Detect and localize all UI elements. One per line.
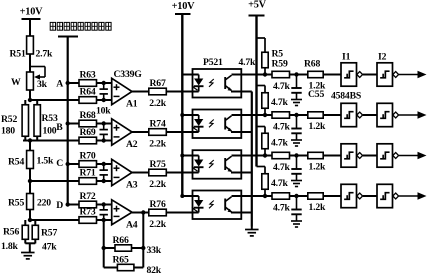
svg-text:1.2k: 1.2k <box>309 121 327 132</box>
svg-text:10k: 10k <box>96 106 111 117</box>
node: pot bottom / tap1 junction <box>28 98 32 102</box>
wire <box>323 195 341 197</box>
svg-text:R75: R75 <box>150 159 166 170</box>
ground (filter ch2) <box>291 140 302 146</box>
svg-text:A4: A4 <box>126 219 138 230</box>
svg-text:D: D <box>56 200 63 211</box>
schmitt inverter I2 ch4 <box>377 184 399 207</box>
light arrow ch2 <box>209 120 214 128</box>
node B <box>56 121 70 133</box>
svg-text:220: 220 <box>37 198 51 209</box>
node A <box>56 79 70 90</box>
LED ch1 <box>192 75 204 92</box>
pull-up resistor 4.7k ch1 <box>257 38 269 75</box>
series resistor 4.7k ch1 <box>265 71 291 92</box>
node <box>294 113 298 117</box>
wire op-amp output <box>132 131 149 133</box>
op-amp A2 <box>112 119 138 150</box>
wire to opto LED <box>166 91 198 93</box>
capacitor (input filter ch1) <box>100 81 108 102</box>
optocoupler P521 ch2 <box>193 110 242 139</box>
wire <box>251 227 253 230</box>
wire to opto LED <box>166 172 198 174</box>
wire +5V rail <box>255 16 257 167</box>
pull-up resistor 4.7k ch3 <box>257 127 269 156</box>
wire op-amp output <box>132 91 149 93</box>
op-amp A4 <box>112 200 138 230</box>
input vertical wire <box>67 37 69 205</box>
schmitt inverter I2 ch2 <box>377 103 399 126</box>
svg-text:33k: 33k <box>147 245 162 256</box>
svg-text:A2: A2 <box>126 139 138 150</box>
svg-text:R54: R54 <box>8 157 24 168</box>
schmitt inverter I1 ch4 <box>341 184 363 207</box>
wire <box>363 74 377 76</box>
resistor R72 (+ input) <box>68 191 97 208</box>
series resistor 1.2k ch2 <box>290 112 327 132</box>
wire <box>97 163 113 165</box>
optocoupler P521 ch1 <box>193 69 242 98</box>
capacitor (input filter ch3) <box>100 162 108 183</box>
node: tap3 junction <box>28 179 32 183</box>
svg-text:I2: I2 <box>378 52 387 63</box>
optocoupler P521 ch3 <box>193 150 242 179</box>
wire tap1 to R64 <box>30 99 79 101</box>
svg-text:R66: R66 <box>113 235 129 246</box>
svg-text:R73: R73 <box>79 207 95 218</box>
svg-text:+10V: +10V <box>20 7 44 18</box>
input terminal bar <box>58 36 78 38</box>
resistor R54 1.5k <box>8 151 54 169</box>
pull-up resistor 4.7k ch2 <box>257 86 269 116</box>
wire <box>29 19 31 37</box>
svg-text:47k: 47k <box>42 242 57 253</box>
filter capacitor ch2 <box>291 115 301 140</box>
phototransistor ch2 <box>225 115 265 132</box>
wire tap2 to R69 <box>23 140 79 142</box>
light arrow ch1 <box>209 79 214 87</box>
node C <box>56 158 70 169</box>
resistor R68 (+ input) <box>68 110 97 127</box>
svg-text:R71: R71 <box>79 168 95 179</box>
+10V supply (left) <box>20 7 44 20</box>
resistor R63 (+ input) <box>68 70 97 87</box>
svg-text:R59: R59 <box>272 59 288 70</box>
optocoupler P521 ch4 <box>193 191 242 220</box>
wire op-amp output <box>132 212 149 214</box>
svg-text:4.7k: 4.7k <box>239 57 257 68</box>
svg-text:2.2k: 2.2k <box>149 219 167 230</box>
resistor R71 (- input) <box>79 168 97 185</box>
wire <box>29 90 31 100</box>
node <box>263 194 267 198</box>
svg-text:2.7k: 2.7k <box>36 49 54 60</box>
schmitt inverter I1 ch1 <box>341 63 363 86</box>
svg-text:2.2k: 2.2k <box>149 139 167 150</box>
schmitt inverter I1 ch2 <box>341 103 363 126</box>
svg-text:1.5k: 1.5k <box>37 156 55 167</box>
svg-text:R72: R72 <box>79 191 95 202</box>
svg-text:R65: R65 <box>113 255 129 266</box>
svg-text:2.2k: 2.2k <box>149 98 167 109</box>
pull-up resistor 4.7k ch4 <box>257 167 269 197</box>
resistor R70 (+ input) <box>68 151 97 168</box>
wire <box>29 54 31 72</box>
resistor R52 180 <box>1 100 29 141</box>
node on +10V rail <box>180 154 184 158</box>
svg-text:100: 100 <box>43 126 57 137</box>
phototransistor ch1 <box>225 75 265 92</box>
series resistor 4.7k ch2 <box>265 112 291 133</box>
svg-text:C339G: C339G <box>114 69 143 80</box>
resistor R51 2.7k <box>10 36 54 60</box>
resistor R75 2.2k <box>149 159 167 190</box>
wire <box>363 195 377 197</box>
wire LED anode <box>182 195 198 197</box>
wire +10V rail <box>181 14 183 196</box>
svg-text:R74: R74 <box>150 119 166 130</box>
resistor R69 (- input) <box>79 127 97 144</box>
svg-text:R52: R52 <box>1 114 17 125</box>
resistor R66 33k <box>104 235 162 256</box>
wire <box>29 169 31 194</box>
svg-text:+5V: +5V <box>248 0 267 11</box>
svg-text:1.2k: 1.2k <box>309 202 327 213</box>
svg-text:82k: 82k <box>147 265 162 276</box>
svg-text:P521: P521 <box>203 57 223 68</box>
node <box>294 72 298 76</box>
resistor R76 2.2k <box>149 199 167 230</box>
output arrow <box>399 71 427 78</box>
wire <box>25 242 35 244</box>
svg-text:1.8k: 1.8k <box>1 241 19 252</box>
svg-text:R57: R57 <box>41 228 57 239</box>
svg-text:R68: R68 <box>79 110 95 121</box>
svg-text:R56: R56 <box>3 227 19 238</box>
svg-text:R70: R70 <box>79 151 95 162</box>
wire <box>97 204 113 206</box>
output arrow <box>399 111 427 118</box>
series resistor 1.2k ch4 <box>290 193 327 213</box>
LED ch4 <box>192 196 204 213</box>
series resistor 4.7k ch3 <box>265 152 291 173</box>
svg-text:R67: R67 <box>150 78 166 89</box>
schmitt inverter I2 ch1 <box>377 63 399 86</box>
wire to opto LED <box>166 131 198 133</box>
wire <box>97 82 113 84</box>
svg-text:1.2k: 1.2k <box>309 162 327 173</box>
node <box>102 246 106 250</box>
resistor R56 1.8k <box>1 220 28 252</box>
wire <box>323 155 341 157</box>
resistor R73 (- input) <box>79 207 97 224</box>
wire to opto LED <box>166 212 198 214</box>
wire LED anode <box>182 114 198 116</box>
svg-text:3k: 3k <box>37 79 48 90</box>
svg-text:4.7k: 4.7k <box>271 138 289 149</box>
svg-text:R69: R69 <box>79 127 95 138</box>
svg-text:4584BS: 4584BS <box>331 91 361 102</box>
series resistor 4.7k ch4 <box>265 193 291 214</box>
svg-text:4.7k: 4.7k <box>271 97 289 108</box>
wire <box>29 141 31 151</box>
svg-text:+10V: +10V <box>172 1 196 12</box>
svg-text:4.7k: 4.7k <box>273 81 291 92</box>
op-amp A1 <box>112 78 138 109</box>
op-amp A3 <box>112 159 138 190</box>
input label (Chinese) <box>50 22 111 30</box>
resistor R67 2.2k <box>149 78 167 109</box>
wire LED anode <box>182 155 198 157</box>
svg-text:2.2k: 2.2k <box>149 179 167 190</box>
ground (filter ch1) <box>291 100 302 106</box>
capacitor (input filter ch4) <box>100 202 108 222</box>
wire <box>323 114 341 116</box>
svg-text:W: W <box>11 77 21 88</box>
wire <box>363 114 377 116</box>
wire <box>323 74 341 76</box>
wire tap3 to R71 <box>30 180 79 182</box>
output arrow <box>399 192 427 199</box>
wire <box>363 155 377 157</box>
output arrow <box>399 152 427 159</box>
node D <box>56 200 70 211</box>
capacitor (input filter ch2) <box>100 121 108 142</box>
light arrow ch4 <box>209 201 214 209</box>
emitter bus wire <box>251 92 253 227</box>
light arrow ch3 <box>209 160 214 168</box>
svg-text:4.7k: 4.7k <box>273 122 291 133</box>
svg-text:R63: R63 <box>79 70 95 81</box>
filter capacitor ch4 <box>291 196 301 221</box>
ground (filter ch4) <box>291 221 302 227</box>
node: R52/R53 bottom junction <box>28 138 32 142</box>
ground (filter ch3) <box>291 181 302 187</box>
resistor R57 47k <box>32 220 57 253</box>
node <box>263 153 267 157</box>
phototransistor ch3 <box>225 156 265 173</box>
node: tap4 junction <box>28 218 32 222</box>
+10V supply (middle) <box>172 1 196 14</box>
phototransistor ch4 <box>225 196 265 213</box>
wire <box>29 210 31 221</box>
resistor R64 (- input) <box>79 87 97 104</box>
schmitt inverter I2 ch3 <box>377 144 399 167</box>
resistor R74 2.2k <box>149 119 167 150</box>
node on +10V rail <box>180 194 184 198</box>
wire feedback left <box>103 220 105 268</box>
svg-text:A3: A3 <box>126 180 138 191</box>
svg-text:A1: A1 <box>126 99 138 110</box>
wire op-amp output <box>132 172 149 174</box>
filter capacitor ch3 <box>291 156 301 181</box>
ground (left divider) <box>21 253 35 259</box>
svg-text:R64: R64 <box>79 87 95 98</box>
LED ch2 <box>192 115 204 132</box>
node <box>294 194 298 198</box>
filter capacitor ch1 <box>291 75 301 100</box>
svg-text:4.7k: 4.7k <box>271 178 289 189</box>
LED ch3 <box>192 156 204 173</box>
svg-text:R51: R51 <box>10 49 26 60</box>
svg-text:1.2k: 1.2k <box>309 81 327 92</box>
svg-text:A: A <box>56 79 63 90</box>
series resistor 1.2k ch1 <box>290 71 327 91</box>
svg-text:R76: R76 <box>150 199 166 210</box>
resistor R65 82k <box>104 255 162 277</box>
svg-text:I1: I1 <box>342 52 351 63</box>
series resistor 1.2k ch3 <box>290 152 327 172</box>
wire <box>97 123 113 125</box>
wire feedback right <box>142 213 144 268</box>
+5V supply <box>248 0 267 16</box>
node <box>263 113 267 117</box>
ground (opto emitters) <box>245 230 258 236</box>
node <box>263 72 267 76</box>
svg-text:180: 180 <box>1 126 15 137</box>
svg-text:4.7k: 4.7k <box>273 162 291 173</box>
wire LED anode <box>182 74 198 76</box>
svg-text:R55: R55 <box>8 198 24 209</box>
resistor R53 100 <box>34 100 58 141</box>
svg-text:C: C <box>56 158 63 169</box>
node <box>294 153 298 157</box>
resistor R55 220 <box>8 194 51 210</box>
svg-text:B: B <box>56 122 63 133</box>
svg-text:4.7k: 4.7k <box>273 203 291 214</box>
wire tap4 to R73 <box>30 219 79 221</box>
potentiometer W 3k <box>11 67 48 91</box>
svg-text:R68: R68 <box>304 59 320 70</box>
node on +10V rail <box>180 113 184 117</box>
schmitt inverter I1 ch3 <box>341 144 363 167</box>
